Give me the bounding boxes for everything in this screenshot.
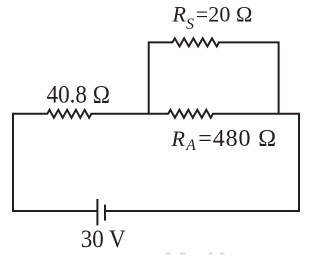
svg-text:S: S: [186, 16, 194, 33]
svg-text:30 V: 30 V: [81, 226, 126, 253]
svg-text:=20 Ω: =20 Ω: [196, 2, 253, 27]
svg-text:40.8 Ω: 40.8 Ω: [47, 82, 111, 109]
svg-text:A: A: [185, 137, 196, 154]
svg-text:R: R: [171, 126, 186, 151]
svg-text:R: R: [172, 2, 187, 27]
svg-text:=480 Ω: =480 Ω: [198, 126, 276, 152]
